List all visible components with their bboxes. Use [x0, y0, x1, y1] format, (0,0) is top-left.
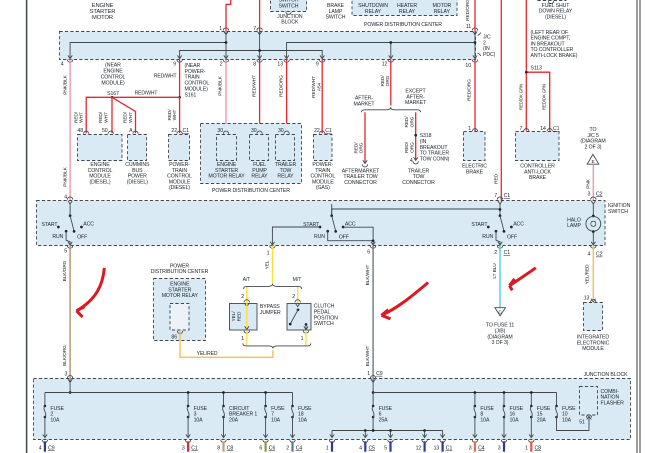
- svg-text:MARKET: MARKET: [405, 100, 427, 106]
- node J/C 2 label: [483, 35, 496, 58]
- label M/T: [293, 277, 303, 283]
- pin 51 flasher: [579, 419, 585, 425]
- svg-text:6: 6: [259, 445, 262, 451]
- svg-text:25A: 25A: [379, 418, 389, 424]
- connector triangle E: [587, 154, 599, 165]
- pin 13 iem: [584, 295, 596, 302]
- pin 1 electric brake: [468, 126, 471, 132]
- svg-text:WHT: WHT: [103, 112, 109, 123]
- wire jb entry left: [69, 379, 71, 393]
- wire yel clutch out: [305, 331, 307, 346]
- svg-text:MOTOR: MOTOR: [92, 15, 113, 21]
- svg-text:1: 1: [241, 336, 244, 342]
- svg-text:3: 3: [182, 445, 185, 451]
- wire red to pin 7: [259, 0, 261, 31]
- svg-text:BLK/WHT: BLK/WHT: [365, 265, 371, 286]
- pin 30 esmr: [217, 128, 223, 134]
- node S318: [414, 134, 417, 137]
- svg-text:RELAY: RELAY: [434, 9, 451, 15]
- pin 30 fuel pump: [251, 128, 257, 134]
- wire red to pin 1: [226, 0, 231, 31]
- integrated electronic module box: [584, 303, 603, 331]
- svg-text:RED/: RED/: [353, 142, 359, 154]
- engine starter motor bus box: [60, 32, 476, 60]
- svg-text:(GAS): (GAS): [316, 185, 330, 191]
- label red: [493, 173, 499, 183]
- label red/wht 22: [167, 109, 178, 121]
- svg-text:RED/ORG: RED/ORG: [278, 75, 284, 97]
- svg-text:6: 6: [367, 250, 370, 256]
- shutdown relay: [358, 3, 388, 15]
- wire pin1-pin2 vertical: [223, 28, 228, 59]
- label blk/org lower: [62, 345, 68, 366]
- svg-text:4: 4: [359, 445, 362, 451]
- svg-text:20A: 20A: [537, 418, 547, 424]
- cummins bus power box: [128, 131, 147, 160]
- wire pin11-pin10 vertical: [472, 28, 477, 59]
- svg-text:ORG: ORG: [385, 75, 391, 86]
- svg-text:RUN: RUN: [482, 234, 493, 240]
- electric brake box: [464, 129, 486, 161]
- brace at/mt split: [244, 284, 302, 289]
- svg-text:RED/WHT: RED/WHT: [154, 74, 177, 80]
- fuse F3: [187, 405, 208, 424]
- fuse6 distribution: [332, 417, 443, 432]
- pin 1 jumper: [241, 336, 244, 342]
- wire red/org pin10 to electric brake: [474, 59, 476, 131]
- pin 50: [102, 128, 108, 134]
- heater relay: [397, 3, 417, 15]
- svg-text:C2: C2: [596, 191, 603, 197]
- label engine starter motor relay 2: [162, 282, 199, 300]
- svg-text:C5: C5: [369, 445, 376, 451]
- svg-text:RELAY: RELAY: [277, 174, 294, 180]
- wire red/org pin13 to relay30: [286, 59, 288, 133]
- svg-text:C8: C8: [227, 445, 234, 451]
- svg-text:RED/ORG: RED/ORG: [465, 0, 471, 21]
- wire red/dk grn branch: [526, 72, 549, 131]
- label combination flasher: [601, 389, 625, 407]
- svg-text:POWER DISTRIBUTION CENTER: POWER DISTRIBUTION CENTER: [212, 188, 290, 194]
- label electric brake: [462, 164, 487, 176]
- svg-text:1: 1: [525, 445, 528, 451]
- svg-text:ACC: ACC: [345, 222, 356, 228]
- pin 2 bus bottom: [220, 60, 229, 68]
- svg-text:C1: C1: [446, 445, 453, 451]
- svg-text:1: 1: [326, 445, 329, 451]
- wire pnk/blk pin2 to relay30: [225, 59, 227, 133]
- svg-text:SWITCH: SWITCH: [608, 209, 628, 215]
- wire red/wht to pin 48: [86, 97, 112, 133]
- svg-text:4: 4: [410, 158, 413, 164]
- fuse6 drop 12: [422, 431, 427, 443]
- svg-text:4: 4: [61, 61, 64, 67]
- svg-text:13: 13: [277, 61, 283, 67]
- wire yel/red right: [592, 246, 594, 300]
- svg-text:(DIESEL): (DIESEL): [89, 179, 110, 185]
- svg-text:8: 8: [253, 61, 256, 67]
- svg-text:C9: C9: [376, 371, 383, 377]
- pin 5 band: [64, 242, 73, 255]
- wire yel/red to jumper brace: [180, 331, 273, 357]
- svg-text:LAMP: LAMP: [567, 223, 581, 229]
- svg-text:C1: C1: [191, 445, 198, 451]
- svg-text:RED: RED: [493, 173, 499, 183]
- svg-text:9: 9: [173, 61, 176, 67]
- svg-text:(DIESEL): (DIESEL): [127, 179, 148, 185]
- svg-text:RED/: RED/: [73, 111, 79, 123]
- svg-text:1: 1: [367, 371, 370, 377]
- bypass jumper box: [230, 300, 258, 330]
- trailer tow relay box: [276, 131, 295, 160]
- label red/wht pin9: [154, 74, 177, 80]
- svg-text:10A: 10A: [194, 418, 204, 424]
- pin 7 calb: [520, 126, 523, 132]
- wire jb entry right: [372, 379, 374, 393]
- svg-text:YEL: YEL: [265, 260, 271, 269]
- wire red/org aftermarket: [362, 112, 367, 167]
- svg-text:(DIESEL): (DIESEL): [169, 185, 190, 191]
- svg-text:ACC: ACC: [513, 222, 524, 228]
- pin 1 band: [267, 242, 275, 257]
- label red/wht 50: [98, 111, 109, 123]
- svg-text:2: 2: [220, 61, 223, 67]
- svg-text:JUNCTION BLOCK: JUNCTION BLOCK: [584, 372, 628, 378]
- svg-text:RED/WHT: RED/WHT: [311, 76, 317, 98]
- pin 48: [77, 128, 83, 134]
- power distribution center 2 box: [154, 279, 206, 341]
- brace aftermarket split: [362, 107, 421, 112]
- label red/wht A: [123, 111, 134, 123]
- label yel/red right: [585, 264, 591, 284]
- svg-text:C4: C4: [478, 445, 485, 451]
- label yel: [265, 260, 271, 269]
- label A/T: [243, 277, 252, 283]
- pin 3 C2 ignition: [588, 191, 603, 204]
- svg-text:7: 7: [494, 193, 497, 199]
- svg-text:BLOCK: BLOCK: [281, 20, 299, 26]
- label red/org pin13: [278, 75, 284, 97]
- label yel/red jumper: [231, 311, 242, 322]
- node S113: [525, 71, 528, 74]
- wire blk/wht: [372, 246, 374, 379]
- pin 30 trailer tow: [278, 128, 284, 134]
- label red/wht A54: [311, 76, 322, 98]
- jb stub 4 C5: [359, 441, 375, 451]
- svg-text:S161: S161: [185, 92, 197, 98]
- fuel shut down relay label: [539, 3, 573, 21]
- wire pnk: [592, 164, 594, 201]
- svg-text:1: 1: [301, 336, 304, 342]
- svg-text:RED/: RED/: [404, 141, 410, 153]
- circuit breaker 1: [222, 405, 257, 424]
- wire red/wht pin8 to relay30: [259, 59, 261, 133]
- svg-text:A54: A54: [316, 82, 322, 91]
- pin 7 C1 ignition: [494, 193, 510, 204]
- wire red to ignition pin 7 C1: [500, 0, 502, 201]
- svg-text:MODULE: MODULE: [582, 346, 604, 352]
- label powertrain control module gas: [310, 162, 335, 191]
- svg-text:9: 9: [316, 61, 319, 67]
- svg-text:BRAKE: BRAKE: [529, 175, 547, 181]
- svg-text:22: 22: [171, 128, 177, 134]
- svg-text:4: 4: [39, 445, 42, 451]
- label to fuse 11: [486, 323, 514, 347]
- svg-text:2: 2: [286, 445, 289, 451]
- svg-text:10A: 10A: [510, 418, 520, 424]
- svg-text:POWER DISTRIBUTION CENTER: POWER DISTRIBUTION CENTER: [364, 22, 442, 28]
- label pnk/blk pin2: [218, 75, 224, 95]
- svg-text:RED/: RED/: [167, 109, 173, 121]
- svg-text:ANTI-LOCK BRAKE): ANTI-LOCK BRAKE): [531, 53, 578, 59]
- node bus A junction: [225, 41, 228, 44]
- svg-text:C8: C8: [535, 445, 542, 451]
- svg-text:PNK/BLK: PNK/BLK: [62, 74, 68, 94]
- svg-text:1: 1: [468, 126, 471, 132]
- svg-text:PNK/BLK: PNK/BLK: [218, 75, 224, 95]
- svg-text:2: 2: [241, 294, 244, 300]
- svg-text:3: 3: [588, 191, 591, 197]
- label powertrain control module diesel: [167, 162, 192, 191]
- label S167 location: [101, 63, 126, 98]
- label red/org pin11: [465, 0, 471, 21]
- combination flasher box: [580, 387, 598, 416]
- svg-text:PNK: PNK: [585, 178, 591, 188]
- fuse F15: [530, 405, 551, 424]
- wire red/org to pin 11: [474, 0, 476, 31]
- svg-text:CONNECTOR: CONNECTOR: [344, 180, 377, 186]
- engine starter motor relay box: [217, 131, 237, 160]
- svg-text:YEL/RED: YEL/RED: [197, 351, 218, 357]
- jb stub 4 C9: [39, 441, 55, 451]
- wire red/org trailer tow: [413, 112, 418, 164]
- jb stub 3b: [498, 441, 505, 451]
- svg-text:SWITCH: SWITCH: [279, 0, 299, 3]
- node sw3 feed: [499, 208, 502, 211]
- jb stub 3 C4: [469, 441, 485, 451]
- wire fuse15 out: [529, 417, 534, 442]
- wire pin12 drop: [389, 43, 393, 60]
- svg-text:FLASHER: FLASHER: [601, 401, 625, 407]
- pin 4 ignition: [64, 195, 73, 204]
- label power distribution center 2: [151, 263, 209, 275]
- label halo lamp: [567, 217, 581, 229]
- wire yel mt branch: [297, 287, 299, 303]
- wire fuse3 out: [185, 417, 190, 442]
- svg-text:C1: C1: [504, 193, 511, 199]
- pin 13 bus bottom: [277, 60, 289, 68]
- svg-text:RED/ORG: RED/ORG: [467, 79, 473, 101]
- annotation red arrow 2: [382, 283, 429, 319]
- label bypass jumper: [260, 304, 281, 316]
- pin 9 bus bottom: [173, 60, 182, 68]
- wire red/org pin12 down: [390, 59, 392, 105]
- svg-text:MARKET: MARKET: [353, 101, 375, 107]
- svg-text:2: 2: [494, 250, 497, 256]
- label S318: [420, 133, 450, 162]
- label S113 location: [531, 30, 578, 72]
- svg-text:OFF: OFF: [339, 235, 349, 241]
- svg-text:RED/: RED/: [123, 111, 129, 123]
- svg-text:51: 51: [579, 419, 585, 425]
- svg-text:30: 30: [278, 128, 284, 134]
- label blk/wht lower: [365, 346, 371, 367]
- label pnk: [585, 178, 591, 188]
- svg-text:SWITCH: SWITCH: [279, 4, 299, 10]
- pin 4 trailer tow: [410, 158, 413, 164]
- svg-text:JUMPER: JUMPER: [260, 310, 281, 316]
- svg-text:YEL/RED: YEL/RED: [585, 264, 591, 284]
- J/C 2 bracket marks: [478, 33, 481, 57]
- label integrated electronic module: [577, 335, 610, 353]
- pin 1 C9 jb entry: [367, 371, 382, 382]
- jb right bus: [373, 393, 556, 407]
- svg-text:48: 48: [77, 128, 83, 134]
- svg-text:ORG: ORG: [409, 142, 415, 153]
- pin 1 clutch: [301, 336, 304, 342]
- wire red/wht S161 to S167: [112, 96, 180, 98]
- svg-text:3: 3: [65, 372, 68, 378]
- svg-text:4: 4: [588, 252, 591, 258]
- starter relay inner box: [170, 304, 189, 331]
- svg-text:BRAKE: BRAKE: [466, 169, 484, 175]
- svg-text:S113: S113: [531, 66, 543, 72]
- wire bus line C: [284, 43, 475, 60]
- svg-text:ACC: ACC: [83, 222, 94, 228]
- svg-text:YEL/: YEL/: [231, 311, 237, 322]
- jb stub 6 C6: [259, 441, 275, 451]
- node S161: [178, 96, 181, 99]
- svg-text:5: 5: [64, 248, 67, 254]
- jb stub 13 C1: [434, 441, 453, 451]
- page right border: [637, 0, 640, 453]
- wire sw2 start to pin1: [272, 227, 320, 245]
- jb stub 3 C1: [182, 441, 198, 451]
- svg-text:PDC): PDC): [483, 52, 496, 58]
- label cummins bus power: [125, 162, 150, 185]
- label pnk/blk lower: [62, 166, 68, 186]
- fuse6 drop 13C1: [440, 431, 445, 443]
- svg-text:BLK/ORG: BLK/ORG: [62, 260, 68, 281]
- svg-text:30: 30: [217, 128, 223, 134]
- svg-text:BLK/WHT: BLK/WHT: [365, 346, 371, 367]
- svg-text:86: 86: [171, 334, 177, 340]
- fuse F7: [264, 405, 285, 424]
- svg-text:ORG: ORG: [409, 116, 415, 127]
- node jb right entry: [372, 391, 375, 394]
- svg-text:C1: C1: [183, 128, 190, 134]
- pin 2 jumper: [241, 294, 244, 300]
- pin 86: [171, 331, 182, 340]
- svg-text:RUN: RUN: [314, 234, 325, 240]
- wire yel: [272, 246, 274, 284]
- pin 2 C1 band: [494, 242, 510, 257]
- label except after-market: [405, 89, 427, 107]
- svg-text:4: 4: [64, 195, 67, 201]
- svg-text:E: E: [591, 159, 594, 165]
- svg-text:START: START: [471, 222, 488, 228]
- label red/org pin12: [380, 75, 391, 87]
- pin 11 top: [466, 24, 471, 30]
- svg-text:SWITCH: SWITCH: [314, 321, 334, 327]
- pin 2 clutch: [292, 294, 295, 300]
- page left border: [26, 0, 28, 453]
- svg-text:3: 3: [469, 445, 472, 451]
- junction block switch box: [271, 0, 307, 14]
- svg-text:7: 7: [253, 26, 256, 32]
- wire bus line B: [177, 51, 324, 60]
- svg-text:8: 8: [217, 445, 220, 451]
- ignition switch 2: [303, 204, 356, 241]
- svg-text:C6: C6: [269, 445, 276, 451]
- engine control module box: [78, 131, 123, 160]
- svg-text:RELAY: RELAY: [251, 174, 268, 180]
- svg-text:MOTOR RELAY: MOTOR RELAY: [208, 174, 245, 180]
- pin 14 C1 calb: [540, 126, 559, 132]
- fuel shut down relay box: [536, 0, 566, 4]
- label junction block: [584, 372, 628, 378]
- label S161 location: [185, 63, 210, 98]
- label red/dk grn 2: [542, 84, 547, 110]
- wire red/wht pin9 to S161: [179, 59, 181, 97]
- brake lamp switch label: [326, 3, 346, 21]
- wire yel through jumper: [244, 303, 249, 333]
- clutch pedal position switch box: [287, 300, 311, 330]
- wire fuse8 out: [472, 417, 477, 443]
- svg-text:SWITCH: SWITCH: [326, 15, 346, 21]
- svg-text:5: 5: [384, 445, 387, 451]
- svg-text:11: 11: [466, 24, 471, 30]
- svg-text:S167: S167: [107, 91, 119, 97]
- power distribution center mid box: [201, 124, 302, 184]
- pin 1 top: [219, 26, 222, 32]
- svg-text:3 OF 3): 3 OF 3): [492, 340, 509, 346]
- svg-text:RED/DK GRN: RED/DK GRN: [542, 84, 547, 110]
- svg-text:CONNECTOR: CONNECTOR: [402, 180, 435, 186]
- svg-text:RED/WHT: RED/WHT: [135, 91, 158, 97]
- wire bus line A: [68, 43, 226, 60]
- fuse6 drop 5: [388, 431, 393, 443]
- jb stub 12: [416, 441, 426, 451]
- label controller anti-lock brake: [520, 164, 555, 182]
- pin 9b bus bottom: [316, 60, 325, 68]
- ignition switch 3: [471, 204, 524, 245]
- svg-text:13: 13: [434, 445, 440, 451]
- label fuel pump relay: [251, 162, 268, 180]
- wire feed line switches 2-3: [332, 209, 500, 215]
- fuse F6: [372, 393, 393, 424]
- jb stub 1: [326, 441, 333, 451]
- pin A: [129, 128, 133, 134]
- label after-market: [353, 96, 375, 108]
- label power distribution center mid: [212, 188, 290, 194]
- svg-text:(DIESEL): (DIESEL): [545, 14, 566, 20]
- svg-text:50: 50: [102, 128, 108, 134]
- junction block label: [277, 14, 303, 26]
- pin 4 C2 band: [588, 242, 603, 258]
- svg-text:10A: 10A: [271, 418, 281, 424]
- pin 6 band: [367, 242, 375, 256]
- pin 22 C1 gas: [314, 128, 332, 134]
- label red/wht splice: [135, 91, 158, 97]
- svg-text:MODULE): MODULE): [101, 80, 125, 86]
- svg-text:MOTOR RELAY: MOTOR RELAY: [162, 293, 199, 299]
- node jb left entry: [69, 391, 72, 394]
- node jb bus dots: [187, 391, 267, 394]
- svg-text:2: 2: [292, 294, 295, 300]
- wire pnk/blk left: [69, 59, 71, 201]
- annotation red arrow 3: [510, 268, 536, 291]
